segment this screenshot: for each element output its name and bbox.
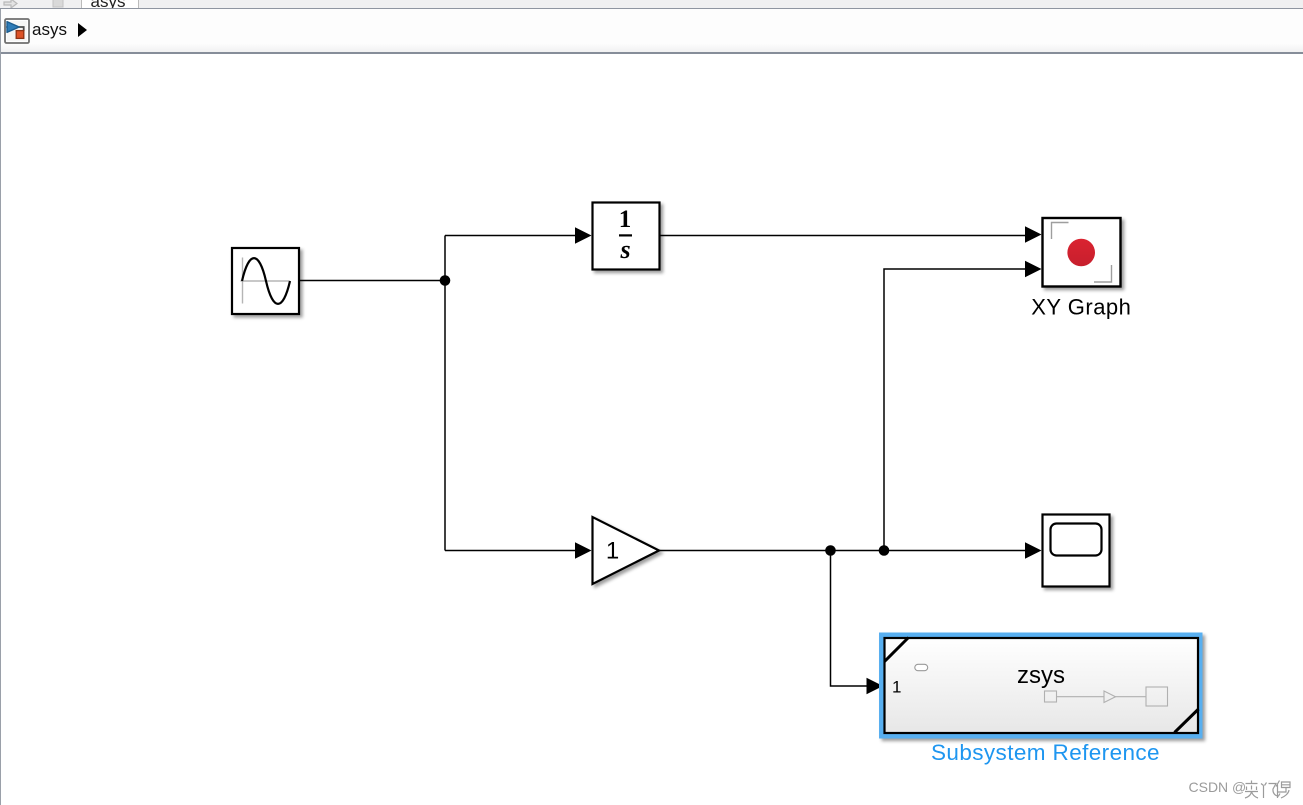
- glyph yi2: [1261, 783, 1280, 799]
- svg-text:zsys: zsys: [1017, 662, 1065, 689]
- watermark CJK glyphs (hand drawn): [1245, 781, 1290, 799]
- simulink model icon button: [4, 18, 38, 52]
- glyph yi1: [1245, 781, 1258, 799]
- arrowhead: scope input: [1025, 542, 1042, 558]
- arrowhead: XY Graph input 1: [1025, 226, 1042, 242]
- corner slash bottom-right: [1175, 709, 1199, 733]
- inner mini diagram: [1045, 687, 1168, 706]
- XY Graph block: [1043, 218, 1121, 287]
- gain block (triangle, value 1): [593, 517, 660, 584]
- svg-text:CSDN @: CSDN @: [1189, 779, 1247, 795]
- toolbar arrow icon remnant: [0, 0, 70, 8]
- wire: sine out to junction A: [300, 280, 445, 282]
- watermark CSDN: [1189, 779, 1247, 795]
- breadcrumb expand triangle: [77, 23, 93, 41]
- svg-text:1: 1: [606, 538, 619, 565]
- small port pill icon: [915, 664, 928, 670]
- breadcrumb bar: [1, 9, 1303, 52]
- svg-text:1: 1: [619, 206, 632, 233]
- wire: gain out to scope input: [659, 550, 1026, 552]
- wire: vertical branch from junction A up to integrator row and down to gain row: [444, 236, 446, 551]
- junction B: [825, 545, 836, 556]
- wire: junction C up and right to XY Graph input 2: [884, 269, 1026, 551]
- wire: branch to integrator input: [445, 235, 576, 237]
- arrowhead: XY Graph input 2: [1025, 261, 1042, 277]
- partial document tab "asys": [81, 0, 139, 8]
- svg-text:Subsystem Reference: Subsystem Reference: [931, 740, 1160, 765]
- wire: junction B down and right to subsystem input: [831, 551, 869, 687]
- arrowhead: gain input: [575, 542, 592, 558]
- corner slash top-left: [885, 638, 909, 662]
- label: Subsystem Reference: [931, 740, 1160, 765]
- breadcrumb text asys: [32, 20, 67, 40]
- wire: branch to gain input: [445, 550, 576, 552]
- arrowhead: integrator input: [575, 227, 592, 243]
- svg-text:1: 1: [892, 678, 901, 697]
- subsystem reference block (selected, blue highlight): [879, 633, 1203, 739]
- junction A: [440, 275, 451, 286]
- svg-text:s: s: [619, 235, 630, 264]
- label: XY Graph: [1031, 295, 1131, 320]
- header: remnants of toolbar tab strip: [0, 0, 1303, 8]
- glyph yi3: [1276, 781, 1290, 799]
- arrowhead: subsystem input: [867, 678, 884, 694]
- scope block: [1043, 515, 1110, 587]
- junction C: [879, 545, 890, 556]
- sine wave source block: [232, 248, 299, 314]
- wire: integrator out to XY Graph input 1: [660, 235, 1026, 237]
- integrator block 1/s: [593, 203, 660, 270]
- svg-text:XY Graph: XY Graph: [1031, 295, 1131, 320]
